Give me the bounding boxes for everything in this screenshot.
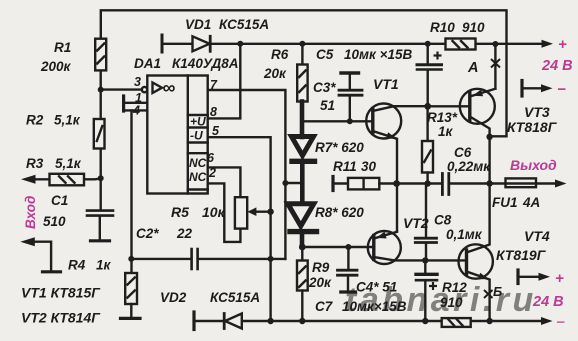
- svg-text:R7* 620: R7* 620: [315, 140, 364, 155]
- ground input T-bar: [43, 270, 61, 273]
- node dot VT3 collector: [486, 134, 492, 140]
- wire pin6 to R5 top: [208, 167, 241, 197]
- svg-text:NC: NC: [189, 170, 207, 184]
- svg-text:R9: R9: [312, 260, 330, 275]
- svg-text:Выход: Выход: [510, 157, 557, 173]
- svg-text:VT2 КТ814Г: VT2 КТ814Г: [21, 310, 101, 326]
- svg-text:10мк ×15В: 10мк ×15В: [344, 47, 412, 62]
- minus 24 arrow bottom: [541, 317, 553, 325]
- potentiometer R5: [235, 197, 247, 228]
- svg-text:C5: C5: [316, 47, 334, 62]
- svg-text:К140УД8А: К140УД8А: [172, 56, 238, 71]
- svg-text:0,1мк: 0,1мк: [446, 227, 483, 242]
- node dot R6 top: [299, 41, 305, 47]
- svg-text:R5: R5: [171, 204, 189, 220]
- svg-text:10к: 10к: [202, 204, 226, 220]
- node B test mark: [484, 290, 493, 298]
- transistor Q2 VT2: [368, 231, 401, 264]
- thick diode D1: [292, 137, 314, 156]
- svg-text:R11: R11: [333, 159, 357, 174]
- svg-text:КТ819Г: КТ819Г: [496, 247, 547, 263]
- wire VT4 base: [394, 259, 467, 261]
- resistor R12: [442, 318, 471, 327]
- svg-text:C2*: C2*: [136, 226, 159, 241]
- svg-text:3: 3: [134, 75, 141, 89]
- svg-text:FU1: FU1: [492, 195, 518, 210]
- resistor R9: [301, 247, 303, 261]
- resistor R4: [125, 273, 137, 304]
- wire output line left: [333, 182, 348, 184]
- capacitor C4: [347, 247, 349, 269]
- node dot C5 bottom / R13 top: [424, 103, 431, 110]
- capacitor C3 top terminal: [341, 71, 359, 74]
- svg-text:VD1: VD1: [185, 17, 211, 32]
- resistor R13: [426, 106, 428, 141]
- ground pin1/4 T-bar: [122, 96, 125, 111]
- node dot R5 wiper: [267, 209, 273, 215]
- wire VT3 collector to output: [488, 137, 490, 184]
- transistor Q4 VT4: [459, 244, 493, 278]
- wire pin4 down to R4: [130, 110, 132, 273]
- svg-text:5,1к: 5,1к: [55, 156, 82, 171]
- wire R1 to R2 column: [99, 70, 101, 119]
- node dot VD1 line / pin8 riser: [237, 41, 243, 47]
- node VD2 anode terminal: [192, 312, 195, 330]
- svg-text:51: 51: [320, 98, 335, 113]
- wire pin7: [208, 90, 286, 259]
- node dot R9 bottom rail: [299, 318, 305, 324]
- wire pin3: [101, 88, 142, 90]
- transistor Q3 VT3: [460, 89, 495, 124]
- ground C1 T-bar: [91, 239, 110, 242]
- svg-text:22: 22: [176, 226, 193, 241]
- svg-text:VT1: VT1: [373, 76, 399, 92]
- svg-text:C1: C1: [51, 193, 68, 208]
- svg-text:24 В: 24 В: [541, 58, 573, 74]
- plus 24 arrow top: [542, 40, 554, 48]
- capacitor C8: [425, 184, 427, 238]
- svg-text:∞: ∞: [163, 78, 176, 98]
- svg-text:DA1: DA1: [134, 56, 161, 71]
- node dot R1/R2/pin3: [98, 87, 104, 93]
- wire +24V rail: [162, 43, 193, 45]
- svg-text:Вход: Вход: [23, 196, 38, 229]
- resistor R10: [446, 39, 476, 50]
- svg-text:5: 5: [212, 124, 220, 138]
- node dot VT4 emitter rail: [486, 318, 492, 324]
- thick diode D2: [288, 204, 314, 226]
- svg-text:20к: 20к: [263, 66, 287, 81]
- svg-text:R8* 620: R8* 620: [315, 205, 364, 220]
- node dot C2 cross: [268, 256, 274, 262]
- svg-text:+: +: [558, 36, 567, 53]
- svg-text:R3: R3: [26, 156, 44, 171]
- capacitor C2: [190, 249, 193, 269]
- svg-text:4A: 4A: [522, 195, 540, 210]
- resistor R1: [95, 39, 106, 71]
- node R11 terminal: [331, 177, 334, 191]
- node dot C7 bottom rail: [422, 318, 428, 324]
- svg-text:910: 910: [462, 20, 485, 35]
- svg-text:C3*: C3*: [313, 80, 336, 95]
- node VD1 anode terminal: [161, 35, 164, 52]
- node dot R4 top: [128, 256, 134, 262]
- polarity plus C5: [434, 54, 442, 56]
- ground R4 T-bar: [121, 317, 141, 320]
- transistor Q1 VT1: [366, 104, 401, 139]
- diode VD2: [223, 314, 226, 329]
- capacitor C3: [339, 89, 362, 92]
- output arrow: [555, 180, 567, 188]
- op-amp triangle symbol: [153, 83, 163, 94]
- plus terminal bottom right: [516, 270, 519, 284]
- wire emitters junction column: [396, 184, 398, 232]
- svg-text:5,1к: 5,1к: [54, 113, 81, 128]
- svg-text:30: 30: [361, 159, 377, 174]
- svg-text:1к: 1к: [96, 258, 112, 273]
- svg-text:−: −: [557, 81, 566, 98]
- svg-text:-U: -U: [190, 129, 203, 143]
- svg-text:NC: NC: [189, 156, 207, 170]
- svg-text:7: 7: [210, 78, 218, 92]
- svg-text:+U: +U: [190, 115, 206, 129]
- resistor R6: [301, 44, 303, 65]
- wire pin2 to R5 bottom: [208, 183, 241, 242]
- node dot R2/R3/C1: [98, 175, 104, 181]
- svg-text:4: 4: [132, 104, 140, 118]
- svg-text:VT3: VT3: [524, 104, 550, 120]
- wire top rail: [101, 10, 507, 136]
- svg-text:510: 510: [43, 214, 66, 229]
- svg-text:−: −: [556, 314, 565, 331]
- svg-text:C6: C6: [454, 145, 472, 160]
- node dot VT4 base / C8 C7: [422, 257, 428, 263]
- svg-text:R6: R6: [271, 47, 289, 62]
- resistor R11: [348, 178, 379, 190]
- op-amp U1 box: [147, 76, 207, 194]
- wire R3 input arrow lead: [30, 178, 50, 180]
- svg-text:R1: R1: [54, 40, 71, 55]
- minus terminal top right: [520, 81, 523, 97]
- svg-text:C8: C8: [434, 213, 452, 228]
- input signal arrow: [21, 175, 36, 184]
- resistor R2: [94, 119, 105, 149]
- svg-text:6: 6: [207, 151, 215, 165]
- svg-text:2: 2: [208, 166, 216, 180]
- input ground arrow: [20, 237, 35, 246]
- svg-text:8: 8: [210, 105, 217, 119]
- svg-text:VD2: VD2: [160, 290, 187, 305]
- wire C2 line: [131, 258, 190, 260]
- node dot output/fuse: [486, 180, 492, 186]
- svg-text:КТ818Г: КТ818Г: [507, 119, 558, 135]
- node dot C4 top: [345, 244, 351, 250]
- svg-text:R4: R4: [68, 258, 86, 273]
- node A test mark: [429, 52, 500, 299]
- svg-text:R13*: R13*: [427, 110, 458, 125]
- wire diode mid branch: [285, 182, 302, 184]
- node dot output emitters: [393, 180, 400, 187]
- node dot VD2 cathode: [267, 318, 273, 324]
- op-amp input circle pin3: [142, 87, 147, 92]
- svg-text:20к: 20к: [308, 275, 332, 290]
- resistor R3: [50, 174, 85, 186]
- wire +24 drop to VT3 emitter: [494, 44, 496, 89]
- svg-text:VT4: VT4: [524, 228, 550, 244]
- svg-text:R2: R2: [26, 113, 44, 128]
- polarity plus C7: [429, 285, 437, 287]
- wire pin8 riser: [208, 44, 241, 119]
- svg-text:0,22мк: 0,22мк: [447, 159, 491, 174]
- node dot C3 bottom: [347, 118, 353, 124]
- wire VT2 base: [302, 246, 374, 248]
- wire pins 1 and 4: [124, 102, 148, 104]
- diode VD1: [193, 36, 210, 51]
- node dot +24 corner: [492, 41, 498, 47]
- wire bottom rail: [194, 320, 223, 322]
- svg-text:А: А: [467, 60, 478, 76]
- svg-text:C7: C7: [315, 299, 334, 314]
- svg-text:+: +: [555, 270, 564, 287]
- svg-text:200к: 200к: [40, 59, 72, 74]
- wire pin5: [208, 137, 271, 321]
- capacitor C5: [427, 44, 429, 64]
- svg-text:VT1 КТ815Г: VT1 КТ815Г: [21, 285, 101, 301]
- svg-text:КС515А: КС515А: [219, 17, 269, 32]
- node dot diode mid branch: [282, 180, 288, 186]
- node dot R13/C8 on output: [424, 180, 430, 186]
- wire input ground arm: [30, 242, 51, 271]
- fuse FU1: [506, 178, 537, 187]
- svg-text:КС515А: КС515А: [210, 290, 260, 305]
- wire R2 to junction: [99, 149, 101, 210]
- capacitor C7: [424, 260, 426, 272]
- capacitor C6: [441, 174, 444, 195]
- svg-text:VT2: VT2: [403, 215, 429, 231]
- thick diode D1 lead from R6: [300, 102, 305, 138]
- wire VT1 base: [303, 120, 373, 122]
- svg-text:tabnari.ru: tabnari.ru: [345, 281, 537, 319]
- svg-text:1к: 1к: [438, 124, 454, 139]
- node dot C5 top: [425, 41, 431, 47]
- wire R3 right lead: [84, 177, 101, 180]
- capacitor C1: [87, 209, 113, 212]
- wire R5 wiper: [254, 210, 271, 212]
- ground C4 T-bar: [341, 290, 356, 293]
- wire output line mid: [397, 182, 442, 184]
- svg-text:R10: R10: [430, 20, 455, 35]
- node dot R9 top: [299, 244, 306, 251]
